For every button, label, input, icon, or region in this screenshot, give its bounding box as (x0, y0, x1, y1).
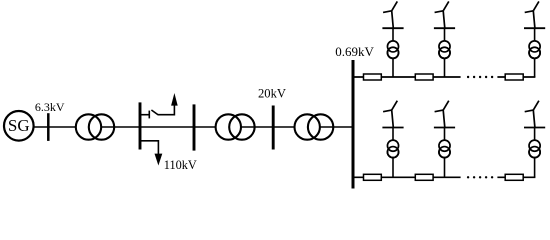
disconnector switch with up arrow (141, 93, 178, 118)
svg-text:6.3kV: 6.3kV (35, 100, 65, 114)
svg-text:20kV: 20kV (258, 86, 286, 100)
feeder F1 impedance box 1 (364, 74, 382, 80)
feeder F1 impedance box 2 (415, 74, 433, 80)
feeder F1 dots (467, 76, 493, 78)
wind turbine unit WTn F2 (524, 101, 545, 178)
bus bar B2 110kV (139, 102, 142, 149)
feeder F1 wire (353, 76, 535, 78)
transformer T3 (295, 114, 334, 139)
wind turbine unit WT2 F2 (434, 101, 455, 178)
generator SG (4, 111, 34, 141)
svg-text:SG: SG (8, 116, 30, 135)
wire main horizontal line SG to main bus (34, 126, 353, 128)
bus bar B1 6.3kV (47, 113, 50, 141)
down arrow to 110kV grid (140, 140, 162, 166)
transformer T2 (216, 114, 255, 139)
feeder F2 wire (353, 176, 535, 178)
main bus 0.69kV (352, 60, 355, 189)
wind turbine unit WT2 F1 (434, 1, 455, 77)
transformer T1 (76, 114, 114, 139)
svg-text:110kV: 110kV (164, 158, 197, 172)
feeder F2 dots (467, 176, 493, 178)
feeder F1 impedance box 3 (505, 74, 523, 80)
wind turbine unit WT1 F2 (382, 101, 403, 178)
wind turbine unit WT1 F1 (382, 1, 403, 77)
bus bar B4 20kV (272, 106, 275, 150)
wind turbine unit WTn F1 (524, 1, 545, 77)
svg-text:0.69kV: 0.69kV (335, 44, 374, 59)
feeder F2 impedance box 3 (505, 174, 523, 180)
feeder F2 impedance box 1 (364, 174, 382, 180)
bus bar B3 (193, 104, 196, 150)
feeder F2 impedance box 2 (415, 174, 433, 180)
